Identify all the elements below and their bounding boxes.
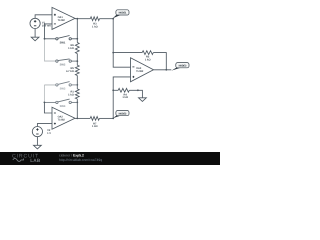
junction chain rail / SW4 bbox=[76, 102, 78, 104]
junction chain rail / OA2 output bbox=[76, 118, 78, 120]
svg-text:TL082: TL082 bbox=[58, 19, 66, 22]
junction chain rail / SW1 bbox=[76, 38, 78, 40]
wire OA2 output row bbox=[75, 117, 90, 119]
wire rail to OA2 inverting input bbox=[44, 102, 52, 113]
resistor R5 4.7k bbox=[75, 65, 79, 75]
junction NODE1 rail / R2 feedback bbox=[112, 52, 114, 54]
svg-text:NODE1: NODE1 bbox=[119, 12, 127, 15]
svg-text:1 kΩ: 1 kΩ bbox=[145, 59, 151, 62]
svg-text:1 kΩ: 1 kΩ bbox=[68, 47, 74, 50]
wire sw3 right bbox=[71, 84, 77, 86]
svg-text:SW1: SW1 bbox=[60, 41, 66, 44]
wire feedback row to R2 bbox=[113, 52, 142, 54]
wire R7 to NODE2 bbox=[99, 117, 113, 119]
wire OA3 output to NODE3 bbox=[154, 69, 172, 71]
wire R4 row bbox=[113, 89, 118, 91]
chain rail segment 2 bbox=[76, 54, 78, 66]
voltage source V2 bbox=[32, 127, 42, 137]
wire OA2 feedback corner (faded) bbox=[44, 84, 55, 86]
wire V1 to OA1 + input bbox=[35, 15, 52, 18]
wire sw1 left bbox=[45, 38, 56, 40]
wire sw2 right bbox=[71, 60, 77, 62]
resistor R3 1k bbox=[90, 17, 99, 21]
svg-text:1 kΩ: 1 kΩ bbox=[92, 26, 98, 29]
wire OA1 inverting input to feedback rail bbox=[45, 24, 53, 39]
wire sw3 left bbox=[44, 84, 55, 86]
junction node NODE2 / R7 bbox=[112, 118, 114, 120]
switch SW3 bbox=[56, 82, 72, 86]
svg-text:1 kΩ: 1 kΩ bbox=[92, 125, 98, 128]
wire rail to SW2 (faded) bbox=[45, 39, 56, 61]
junction left rail / SW4 bbox=[44, 102, 46, 104]
op-amp OA1 bbox=[52, 7, 75, 29]
svg-text:http://circuitlab.com/cna749q: http://circuitlab.com/cna749q bbox=[59, 158, 102, 162]
junction R4 / ground stub bbox=[137, 89, 139, 91]
switch SW1 bbox=[56, 36, 72, 40]
node tag NODE2 bbox=[113, 116, 121, 119]
wire sw4 left bbox=[44, 101, 55, 103]
wire OA1 output row bbox=[75, 18, 90, 20]
chain rail segment 3 bbox=[76, 76, 78, 89]
svg-text:TL082: TL082 bbox=[136, 70, 144, 73]
op-amp OA2 bbox=[52, 107, 75, 129]
junction left rail / SW1 bbox=[44, 38, 46, 40]
chain rail segment 4 bbox=[76, 99, 78, 118]
resistor R2 1k feedback bbox=[142, 51, 153, 55]
ground below V2 bbox=[34, 145, 42, 149]
resistor R6 1k bbox=[75, 43, 79, 54]
watermark bar bbox=[0, 152, 220, 165]
svg-text:100 mV: 100 mV bbox=[42, 25, 51, 28]
wire V2 to OA2 + input bbox=[37, 124, 52, 127]
svg-text:1 kΩ: 1 kΩ bbox=[122, 96, 128, 99]
switch SW2 bbox=[56, 59, 72, 62]
wire NODE1 rail down to OA3 - input bbox=[113, 19, 130, 67]
resistor R7 1k bbox=[90, 117, 99, 121]
ground right of R4 bbox=[139, 98, 147, 102]
CircuitLab logo bbox=[12, 153, 41, 163]
wire V2 to ground bbox=[36, 137, 38, 146]
wire sw2 left bbox=[45, 60, 56, 62]
chain rail segment 1 bbox=[76, 19, 78, 43]
voltage source V1 bbox=[30, 18, 40, 28]
ground below V1 bbox=[31, 37, 39, 41]
wire sw1 right bbox=[71, 38, 77, 40]
svg-text:SW2: SW2 bbox=[60, 64, 66, 67]
svg-text:SW4: SW4 bbox=[60, 105, 66, 108]
resistor R1 1k bbox=[75, 89, 79, 99]
junction node NODE1 / R3 bbox=[112, 18, 114, 20]
svg-text:NODE2: NODE2 bbox=[119, 112, 127, 115]
junction chain rail / SW3 bbox=[76, 84, 78, 86]
svg-text:LAB: LAB bbox=[30, 158, 41, 163]
wire R2 to OA3 output bbox=[153, 53, 166, 70]
wire NODE2 rail up to OA3 + input bbox=[113, 77, 130, 119]
svg-text:1 kΩ: 1 kΩ bbox=[68, 94, 74, 97]
node tag NODE1 bbox=[113, 15, 122, 19]
svg-text:SW3: SW3 bbox=[60, 88, 66, 91]
svg-text:NODE3: NODE3 bbox=[179, 64, 187, 67]
wire R4 to ground bbox=[129, 90, 142, 98]
svg-text:1 V: 1 V bbox=[47, 132, 51, 135]
svg-text:4.7 kΩ: 4.7 kΩ bbox=[66, 70, 74, 73]
svg-text:ctekner / Exp5.2: ctekner / Exp5.2 bbox=[59, 153, 84, 157]
junction OA1 output / chain rail bbox=[76, 18, 78, 20]
wire R3 to NODE1 bbox=[100, 18, 114, 20]
junction NODE2 rail / R4 bbox=[112, 89, 114, 91]
op-amp OA3 bbox=[131, 58, 154, 82]
resistor R4 1k bbox=[118, 88, 129, 92]
switch SW4 bbox=[56, 99, 72, 103]
svg-text:TL082: TL082 bbox=[58, 119, 66, 122]
junction chain rail / SW2 bbox=[76, 60, 78, 62]
wire V1 to ground bbox=[34, 29, 36, 38]
junction R2 / OA3 output bbox=[165, 69, 167, 71]
node tag NODE3 bbox=[171, 68, 181, 71]
wire sw4 right bbox=[71, 101, 77, 103]
